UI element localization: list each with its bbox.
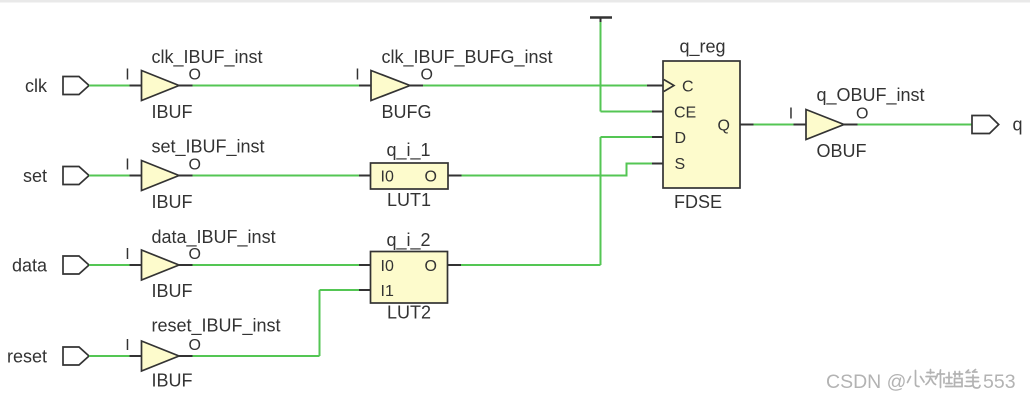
port q <box>972 116 999 134</box>
svg-text:reset_IBUF_inst: reset_IBUF_inst <box>152 316 281 337</box>
type label LUT2 <box>387 303 431 323</box>
instance label clk_IBUF_inst <box>152 47 263 68</box>
svg-text:I: I <box>125 337 129 354</box>
buffer q_OBUF_inst (OBUF) <box>806 110 844 140</box>
svg-text:O: O <box>425 258 437 275</box>
port label clk <box>25 76 48 96</box>
pin label I1 of q_i_2 <box>381 283 394 300</box>
instance label q_OBUF_inst <box>817 85 925 106</box>
type label LUT1 <box>387 190 431 210</box>
svg-text:CSDN @: CSDN @ <box>826 371 906 393</box>
svg-text:O: O <box>189 337 201 354</box>
svg-text:I: I <box>125 246 129 263</box>
instance label q_i_1 <box>387 140 431 161</box>
svg-text:O: O <box>189 66 201 83</box>
buffer set_IBUF_inst (IBUF) <box>142 161 180 191</box>
svg-text:IBUF: IBUF <box>152 371 193 391</box>
svg-text:BUFG: BUFG <box>382 102 432 122</box>
wire net q_OBUF to port q <box>844 124 972 126</box>
instance label clk_IBUF_BUFG_inst <box>382 47 553 68</box>
svg-text:IBUF: IBUF <box>152 192 193 212</box>
svg-text:reset: reset <box>7 346 47 366</box>
pin label I of reset_IBUF_inst <box>125 337 129 354</box>
pin label O of OBUF <box>856 105 868 122</box>
svg-text:LUT1: LUT1 <box>387 190 431 210</box>
svg-text:O: O <box>189 246 201 263</box>
pin label O of set_IBUF_inst <box>189 156 201 173</box>
pin label I0 of q_i_1 <box>381 168 394 185</box>
svg-text:553: 553 <box>983 371 1016 393</box>
wire net q_i_2 output to FDSE D <box>448 137 664 265</box>
svg-text:set_IBUF_inst: set_IBUF_inst <box>152 137 265 158</box>
wire net clk_IBUF_BUFG to FDSE C <box>410 85 663 87</box>
buffer reset_IBUF_inst (IBUF) <box>142 341 180 371</box>
wire clk port to IBUF <box>89 85 142 87</box>
pin label O of data_IBUF_inst <box>189 246 201 263</box>
svg-text:q_OBUF_inst: q_OBUF_inst <box>817 85 925 106</box>
pin label Q <box>718 118 730 135</box>
port set <box>63 167 89 185</box>
wire net q FDSE Q to OBUF <box>740 124 806 126</box>
svg-text:I1: I1 <box>381 283 394 300</box>
port clk <box>63 77 89 95</box>
pin label CE <box>674 104 696 121</box>
instance label set_IBUF_inst <box>152 137 265 158</box>
svg-text:clk: clk <box>25 76 48 96</box>
svg-text:OBUF: OBUF <box>817 141 867 161</box>
svg-text:IBUF: IBUF <box>152 102 193 122</box>
pin label O of reset_IBUF_inst <box>189 337 201 354</box>
port label q <box>1013 115 1023 135</box>
svg-text:q_i_1: q_i_1 <box>387 140 431 161</box>
pin label I of data_IBUF_inst <box>125 246 129 263</box>
svg-text:I0: I0 <box>381 168 394 185</box>
svg-text:q_reg: q_reg <box>680 37 726 58</box>
svg-text:O: O <box>425 168 437 185</box>
pin label S <box>675 156 686 173</box>
LUT2 q_i_2 <box>371 252 448 304</box>
instance label q_i_2 <box>387 230 431 251</box>
wire net q_i_1 output to FDSE S <box>448 163 663 177</box>
svg-text:clk_IBUF_BUFG_inst: clk_IBUF_BUFG_inst <box>382 47 553 68</box>
buffer clk_IBUF_BUFG_inst (BUFG) <box>371 71 410 101</box>
svg-text:O: O <box>856 105 868 122</box>
svg-text:LUT2: LUT2 <box>387 303 431 323</box>
instance label data_IBUF_inst <box>152 227 276 248</box>
type label IBUF (set) <box>152 192 193 212</box>
svg-text:data: data <box>12 255 48 275</box>
svg-text:I: I <box>789 105 793 122</box>
type label IBUF <box>152 102 193 122</box>
svg-text:D: D <box>675 130 687 147</box>
pin label D <box>675 130 687 147</box>
wire net const1 VCC to FDSE CE <box>601 22 664 112</box>
svg-text:I: I <box>355 66 359 83</box>
pin label I of set_IBUF_inst <box>125 156 129 173</box>
wire data port to IBUF <box>89 264 142 266</box>
instance label q_reg <box>680 37 726 58</box>
buffer data_IBUF_inst (IBUF) <box>142 250 180 280</box>
pin label I of BUFG <box>355 66 359 83</box>
port reset <box>63 347 89 365</box>
buffer clk_IBUF_inst (IBUF) <box>142 71 180 101</box>
LUT1 q_i_1 <box>371 163 449 189</box>
port label set <box>23 166 47 186</box>
type label BUFG <box>382 102 432 122</box>
type label OBUF <box>817 141 867 161</box>
pin label O of q_i_1 <box>425 168 437 185</box>
svg-text:clk_IBUF_inst: clk_IBUF_inst <box>152 47 263 68</box>
svg-text:S: S <box>675 156 686 173</box>
pin label O of q_i_2 <box>425 258 437 275</box>
pin label I of OBUF <box>789 105 793 122</box>
clock chevron on pin C <box>664 80 674 92</box>
pin label C <box>682 78 694 95</box>
svg-text:C: C <box>682 78 694 95</box>
port label reset <box>7 346 47 366</box>
svg-text:I: I <box>125 66 129 83</box>
type label FDSE <box>674 192 722 212</box>
pin label I0 of q_i_2 <box>381 258 394 275</box>
power VCC symbol <box>590 18 612 23</box>
svg-text:O: O <box>189 156 201 173</box>
wire net set_IBUF to LUT1 I0 <box>179 175 371 177</box>
wire net data_IBUF to LUT2 I0 <box>179 264 371 266</box>
wire reset port to IBUF <box>89 355 142 357</box>
wire net clk_IBUF <box>179 85 371 87</box>
port label data <box>12 255 48 275</box>
svg-text:set: set <box>23 166 47 186</box>
svg-text:IBUF: IBUF <box>152 281 193 301</box>
svg-text:data_IBUF_inst: data_IBUF_inst <box>152 227 276 248</box>
pin label O of BUFG <box>421 66 433 83</box>
svg-text:I: I <box>125 156 129 173</box>
wire set port to IBUF <box>89 175 142 177</box>
wire net reset_IBUF to LUT2 I1 <box>179 290 371 356</box>
type label IBUF (reset) <box>152 371 193 391</box>
svg-text:q: q <box>1013 115 1023 135</box>
svg-text:Q: Q <box>718 118 730 135</box>
svg-text:FDSE: FDSE <box>674 192 722 212</box>
flip-flop q_reg (FDSE) <box>663 61 740 188</box>
svg-text:q_i_2: q_i_2 <box>387 230 431 251</box>
type label IBUF (data) <box>152 281 193 301</box>
pin label I of clk_IBUF_inst <box>125 66 129 83</box>
svg-text:O: O <box>421 66 433 83</box>
instance label reset_IBUF_inst <box>152 316 281 337</box>
svg-text:CE: CE <box>674 104 696 121</box>
watermark CSDN @xiaoxinlabi553 <box>826 370 1016 394</box>
svg-text:I0: I0 <box>381 258 394 275</box>
pin label O of clk_IBUF_inst <box>189 66 201 83</box>
port data <box>63 256 89 274</box>
